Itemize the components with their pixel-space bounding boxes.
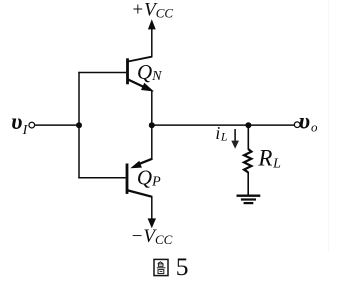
- wire vertical base bus: [78, 72, 80, 179]
- current arrow iL: [231, 129, 239, 149]
- svg-text:−VCC: −VCC: [131, 226, 173, 247]
- ground: [237, 196, 261, 203]
- transistor QN (NPN): [126, 58, 154, 91]
- wire input to node A: [35, 124, 79, 126]
- svg-text:+VCC: +VCC: [131, 0, 173, 21]
- svg-text:I: I: [22, 123, 29, 138]
- svg-text:υ: υ: [299, 108, 310, 133]
- svg-text:RL: RL: [257, 146, 281, 172]
- resistor RL: [244, 149, 251, 172]
- faint page rule artifact: [328, 0, 330, 252]
- input terminal circle: [29, 122, 35, 128]
- wire QN emitter down to node B: [151, 91, 153, 126]
- node B junction dot: [149, 122, 155, 128]
- output terminal circle: [294, 122, 300, 128]
- transistor QP (PNP): [126, 159, 153, 197]
- wire node B down to QP emitter: [151, 125, 153, 159]
- node A junction dot: [76, 122, 82, 128]
- wire QP base: [78, 177, 125, 179]
- wire node C to resistor RL: [247, 125, 249, 149]
- svg-text:o: o: [311, 119, 318, 134]
- svg-text:5: 5: [176, 252, 189, 281]
- wire QP collector to -VCC with down arrow: [148, 196, 156, 228]
- svg-text:iL: iL: [215, 123, 227, 144]
- wire QN collector to +VCC with up arrow: [128, 19, 156, 61]
- wire output line: [152, 124, 294, 126]
- caption figure glyph 圖 (drawn): [154, 259, 168, 275]
- node C junction dot: [245, 122, 251, 128]
- wire RL to ground: [247, 172, 249, 195]
- svg-text:QP: QP: [137, 166, 161, 190]
- svg-text:υ: υ: [11, 109, 22, 134]
- wire QN base: [78, 72, 126, 74]
- svg-text:QN: QN: [137, 60, 162, 84]
